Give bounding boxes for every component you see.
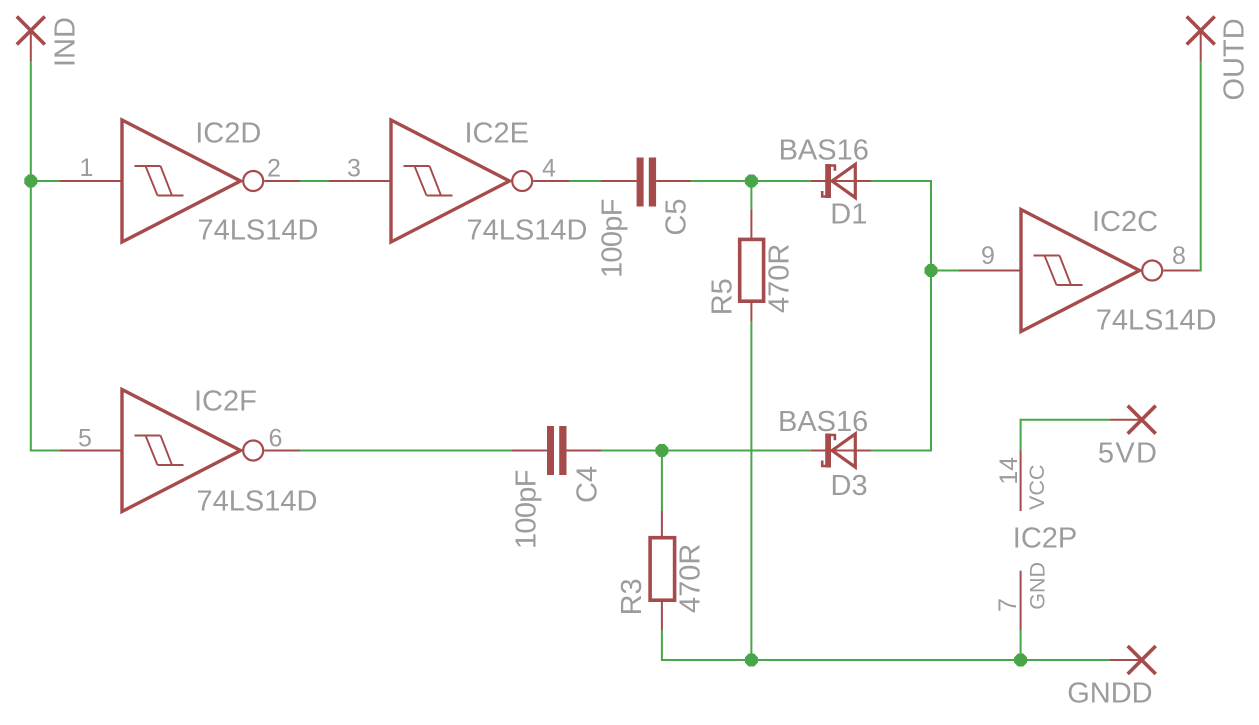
diode D3	[811, 434, 871, 468]
pin marker X OUTD	[1187, 17, 1215, 45]
resistor R3 top lead	[661, 511, 663, 538]
svg-text:5: 5	[78, 425, 92, 453]
junction node R5/bottom rail	[745, 654, 758, 667]
wire C5 to D1 with junction	[691, 180, 811, 182]
svg-text:9: 9	[981, 242, 995, 270]
svg-text:BAS16: BAS16	[778, 406, 868, 438]
svg-text:IC2P: IC2P	[1013, 522, 1077, 554]
diode D1	[811, 164, 871, 198]
pin marker X 5VD	[1128, 406, 1156, 434]
svg-text:7: 7	[994, 598, 1022, 612]
wire D1 anode right, down to D3, corner	[871, 181, 931, 451]
wire IND junction to IC2D pin 1	[31, 180, 61, 182]
svg-text:100pF: 100pF	[596, 199, 628, 278]
svg-text:R5: R5	[707, 278, 739, 315]
wire IC2E out to C5	[569, 180, 601, 182]
svg-text:OUTD: OUTD	[1219, 18, 1251, 100]
junction node C4/R3/D3	[655, 444, 668, 457]
wire R3 bottom rail to GNDD	[662, 630, 1110, 660]
capacitor C5 plates	[637, 158, 657, 207]
wire GND pin to bottom rail	[1020, 630, 1022, 660]
svg-text:14: 14	[995, 457, 1023, 485]
capacitor C4 right pin	[567, 450, 602, 452]
svg-text:5VD: 5VD	[1098, 437, 1158, 469]
wire junction down to R5	[750, 181, 752, 210]
svg-text:GND: GND	[1025, 562, 1049, 610]
capacitor C4 plates	[547, 426, 567, 475]
resistor R5 top lead	[750, 210, 752, 240]
wire R5 bottom to bottom rail	[750, 321, 752, 660]
svg-text:8: 8	[1172, 242, 1186, 270]
svg-text:2: 2	[267, 155, 281, 183]
wire junction to IC2C pin 9	[931, 270, 959, 272]
resistor R3 bottom lead	[661, 600, 663, 630]
svg-text:GNDD: GNDD	[1067, 678, 1152, 710]
resistor R5 body	[740, 239, 764, 301]
resistor R5 bottom lead	[750, 301, 752, 321]
pin marker X GNDD	[1128, 646, 1156, 674]
junction node IND/IC2D	[24, 175, 37, 188]
svg-text:3: 3	[347, 155, 361, 183]
pin GNDD red stub	[1110, 659, 1142, 661]
junction node IC2C input	[925, 264, 938, 277]
svg-text:D1: D1	[830, 198, 867, 230]
wire C4 to D3 with junction	[601, 450, 811, 452]
capacitor C4 left pin	[512, 450, 547, 452]
svg-text:BAS16: BAS16	[779, 135, 869, 167]
pin IND red stub	[30, 31, 32, 62]
pin VCC of IC2P	[1020, 451, 1022, 512]
junction node GND pin/bottom rail	[1014, 654, 1027, 667]
wire IC2F out to C4	[300, 450, 512, 452]
pin marker X IND	[17, 17, 45, 45]
junction node C5/R5/D1	[745, 175, 758, 188]
svg-text:IC2D: IC2D	[195, 117, 261, 149]
inverter IC2C	[959, 210, 1199, 332]
svg-text:100pF: 100pF	[511, 470, 543, 549]
inverter IC2E	[329, 120, 569, 242]
svg-text:74LS14D: 74LS14D	[1096, 305, 1217, 337]
svg-text:470R: 470R	[764, 244, 796, 313]
svg-text:C4: C4	[572, 466, 604, 503]
wire junction down to R3	[661, 451, 663, 512]
svg-text:C5: C5	[661, 199, 693, 236]
svg-text:VCC: VCC	[1025, 465, 1049, 510]
svg-text:D3: D3	[831, 470, 868, 502]
wire IC2C out up to OUTD	[1199, 61, 1201, 271]
inverter IC2D	[60, 120, 300, 242]
wire IC2D out to IC2E in	[300, 180, 330, 182]
svg-text:74LS14D: 74LS14D	[198, 215, 319, 247]
svg-text:IC2F: IC2F	[194, 386, 257, 418]
capacitor C5 right pin	[656, 180, 690, 182]
pin 5VD red stub	[1110, 419, 1142, 421]
resistor R3 body	[650, 538, 675, 601]
svg-text:1: 1	[80, 154, 94, 182]
svg-text:IC2C: IC2C	[1092, 206, 1158, 238]
wire 5VD to IC2P VCC	[1021, 420, 1110, 451]
svg-text:74LS14D: 74LS14D	[197, 486, 318, 518]
svg-text:74LS14D: 74LS14D	[467, 215, 588, 247]
inverter IC2F	[60, 390, 300, 512]
svg-text:R3: R3	[616, 578, 648, 615]
wire IND vertical + corner to IC2F pin 5	[31, 61, 60, 451]
svg-text:IND: IND	[50, 17, 82, 67]
pin GND of IC2P	[1020, 571, 1022, 630]
capacitor C5 left pin	[601, 180, 637, 182]
svg-text:470R: 470R	[675, 544, 707, 613]
svg-text:6: 6	[269, 425, 283, 453]
svg-text:IC2E: IC2E	[465, 118, 529, 150]
pin OUTD red stub	[1200, 31, 1202, 62]
svg-text:4: 4	[542, 155, 556, 183]
